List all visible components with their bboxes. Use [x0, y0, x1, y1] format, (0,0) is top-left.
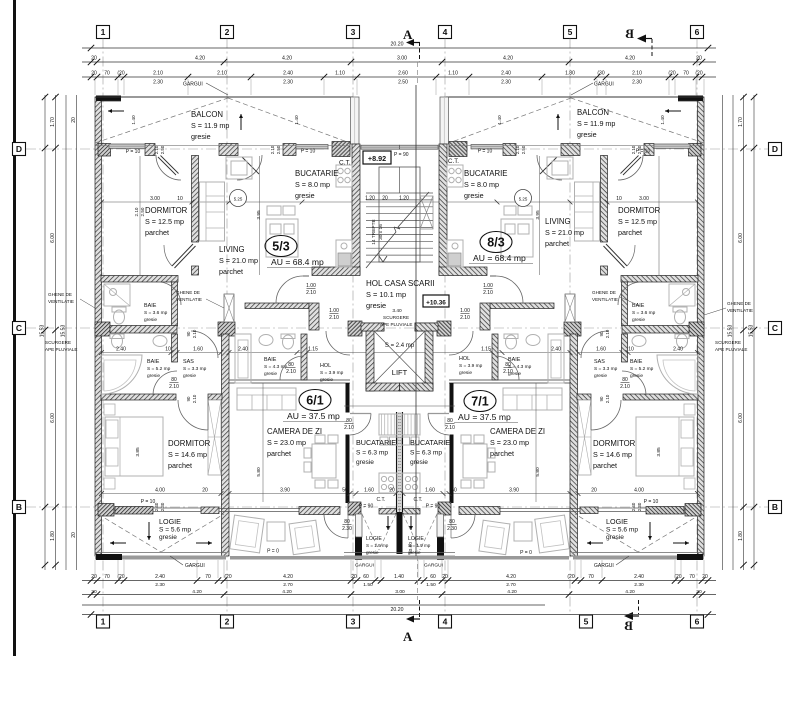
svg-text:gresie: gresie [464, 191, 484, 200]
svg-text:50: 50 [342, 488, 348, 494]
svg-text:20: 20 [91, 71, 97, 77]
svg-text:S = 5.6 mp: S = 5.6 mp [606, 527, 638, 534]
svg-text:BAIE: BAIE [264, 357, 277, 363]
svg-text:50: 50 [451, 488, 457, 494]
svg-text:3.85: 3.85 [135, 447, 141, 457]
svg-text:70: 70 [689, 574, 695, 580]
svg-text:SCURGERE: SCURGERE [383, 315, 409, 320]
svg-text:SCURGERE: SCURGERE [45, 340, 71, 345]
svg-text:7/1: 7/1 [471, 395, 488, 409]
svg-text:5.25: 5.25 [519, 197, 528, 202]
svg-text:2.40: 2.40 [155, 574, 165, 580]
svg-text:LOGIE: LOGIE [159, 517, 181, 526]
svg-text:5.25: 5.25 [234, 197, 243, 202]
svg-text:1.00: 1.00 [483, 283, 493, 289]
svg-text:BALCON: BALCON [577, 108, 609, 117]
svg-text:2: 2 [225, 27, 230, 37]
svg-text:30 x 16: 30 x 16 [378, 224, 384, 240]
svg-text:HOL CASA SCARII: HOL CASA SCARII [366, 279, 435, 288]
svg-text:P = 90: P = 90 [359, 504, 374, 510]
svg-text:15.53: 15.53 [749, 325, 755, 338]
svg-text:2.40: 2.40 [634, 574, 644, 580]
svg-text:1.10: 1.10 [448, 71, 458, 77]
svg-text:SAS: SAS [594, 359, 605, 365]
svg-text:(20: (20 [668, 71, 675, 77]
svg-text:P = 10: P = 10 [301, 149, 316, 155]
svg-text:2.10: 2.10 [153, 71, 163, 77]
svg-text:A: A [403, 629, 413, 644]
svg-text:2.10: 2.10 [620, 384, 630, 390]
svg-text:S = 14.6 mp: S = 14.6 mp [168, 450, 207, 459]
svg-text:3.90: 3.90 [280, 488, 290, 494]
svg-text:1.15: 1.15 [308, 347, 318, 353]
svg-text:5: 5 [568, 27, 573, 37]
svg-text:2.10: 2.10 [169, 384, 179, 390]
svg-text:S = 8.0 mp: S = 8.0 mp [464, 180, 499, 189]
svg-text:2.30: 2.30 [153, 80, 163, 86]
svg-text:S = 5.2 mp: S = 5.2 mp [147, 366, 171, 372]
svg-text:20: 20 [591, 488, 597, 494]
svg-text:P = 10: P = 10 [478, 149, 493, 155]
svg-text:BAIE: BAIE [630, 359, 643, 365]
svg-text:4.20: 4.20 [282, 589, 292, 595]
svg-text:2.40: 2.40 [673, 347, 683, 353]
svg-text:VENTILATIE: VENTILATIE [592, 297, 618, 302]
svg-text:GARGUI: GARGUI [185, 563, 205, 569]
svg-text:gresie: gresie [630, 373, 643, 379]
svg-text:S = 5.2 mp: S = 5.2 mp [630, 366, 654, 372]
svg-text:80: 80 [346, 418, 352, 424]
svg-text:(20: (20 [567, 574, 574, 580]
svg-text:20: 20 [351, 574, 357, 580]
svg-text:20: 20 [702, 574, 708, 580]
svg-text:2.40: 2.40 [631, 502, 636, 511]
svg-text:15.53: 15.53 [61, 325, 67, 338]
svg-text:S = 21.0 mp: S = 21.0 mp [219, 256, 258, 265]
svg-text:parchet: parchet [593, 461, 617, 470]
svg-text:S = 3.9 mp: S = 3.9 mp [320, 370, 344, 376]
svg-text:(20: (20 [117, 574, 124, 580]
svg-text:2.10: 2.10 [445, 425, 455, 431]
svg-text:gresie: gresie [459, 370, 472, 376]
svg-text:10: 10 [616, 196, 622, 202]
svg-text:(20: (20 [224, 574, 231, 580]
svg-text:6.00: 6.00 [50, 233, 56, 243]
svg-text:AU = 68.4 mp: AU = 68.4 mp [473, 253, 526, 263]
svg-text:1.20: 1.20 [365, 196, 375, 202]
svg-text:15.53: 15.53 [728, 325, 734, 338]
svg-text:20: 20 [696, 56, 702, 62]
svg-text:P = 0: P = 0 [520, 550, 532, 556]
svg-text:BUCATARIE: BUCATARIE [356, 438, 396, 447]
svg-text:gresie: gresie [356, 459, 374, 466]
svg-text:(20: (20 [695, 71, 702, 77]
svg-text:70: 70 [104, 574, 110, 580]
svg-text:GHENE DE: GHENE DE [727, 301, 751, 306]
svg-text:B: B [624, 618, 633, 633]
svg-text:APE PLUVIALE: APE PLUVIALE [715, 347, 747, 352]
svg-text:4.00: 4.00 [155, 488, 165, 494]
svg-text:VENTILATIE: VENTILATIE [48, 299, 74, 304]
svg-text:BUCATARIE: BUCATARIE [295, 169, 338, 178]
svg-text:2.50: 2.50 [521, 145, 526, 154]
svg-text:1.20: 1.20 [399, 196, 409, 202]
svg-text:3.90: 3.90 [509, 488, 519, 494]
svg-text:S = 3.3 mp: S = 3.3 mp [594, 366, 618, 372]
svg-text:4.20: 4.20 [625, 56, 635, 62]
svg-text:S = 11.9 mp: S = 11.9 mp [191, 121, 229, 130]
svg-text:2.10: 2.10 [503, 369, 513, 375]
svg-text:80: 80 [622, 377, 628, 383]
svg-text:2.70: 2.70 [506, 582, 516, 588]
svg-text:LOGIE: LOGIE [366, 536, 382, 542]
svg-text:70: 70 [588, 574, 594, 580]
svg-text:parchet: parchet [490, 449, 514, 458]
svg-text:14 TREPTE: 14 TREPTE [371, 219, 377, 245]
svg-text:1.00: 1.00 [306, 283, 316, 289]
svg-text:2.10: 2.10 [605, 329, 610, 338]
svg-text:P = 10: P = 10 [126, 149, 141, 155]
svg-text:4.20: 4.20 [192, 589, 202, 595]
svg-text:GHENE DE: GHENE DE [592, 290, 616, 295]
svg-text:2.40: 2.40 [501, 71, 511, 77]
svg-text:P = 0: P = 0 [267, 549, 279, 555]
svg-text:10: 10 [165, 347, 171, 353]
svg-text:6/1: 6/1 [306, 394, 323, 408]
svg-text:70: 70 [683, 71, 689, 77]
svg-text:DORMITOR: DORMITOR [618, 206, 661, 215]
svg-text:20: 20 [442, 574, 448, 580]
svg-text:SCURGERE: SCURGERE [715, 340, 741, 345]
svg-text:S = 12.5 mp: S = 12.5 mp [618, 217, 657, 226]
svg-text:gresie: gresie [264, 371, 277, 377]
svg-text:2: 2 [225, 617, 230, 627]
svg-text:A: A [403, 27, 413, 42]
svg-text:CAMERA DE ZI: CAMERA DE ZI [267, 427, 322, 436]
svg-text:BAIE: BAIE [144, 303, 157, 309]
svg-text:6.00: 6.00 [50, 413, 56, 423]
svg-text:4.00: 4.00 [634, 488, 644, 494]
svg-text:20: 20 [71, 117, 77, 123]
svg-text:80: 80 [505, 362, 511, 368]
svg-text:2.10: 2.10 [344, 425, 354, 431]
svg-text:4: 4 [443, 27, 448, 37]
svg-text:2.10: 2.10 [329, 315, 339, 321]
svg-text:2.40: 2.40 [154, 502, 159, 511]
svg-text:HOL: HOL [459, 356, 470, 362]
svg-text:1.40: 1.40 [394, 574, 404, 580]
svg-text:2.40: 2.40 [116, 347, 126, 353]
svg-text:5.80: 5.80 [535, 467, 541, 477]
svg-text:2.50: 2.50 [398, 80, 408, 86]
svg-text:1.70: 1.70 [50, 117, 56, 127]
svg-text:80: 80 [171, 377, 177, 383]
svg-text:3.95: 3.95 [256, 210, 262, 220]
svg-text:B: B [772, 502, 778, 512]
svg-text:+10.36: +10.36 [426, 300, 446, 307]
svg-text:20: 20 [696, 589, 702, 595]
svg-text:P = 90: P = 90 [426, 504, 441, 510]
svg-text:1.50: 1.50 [363, 582, 373, 588]
svg-text:S = 3.6 mp: S = 3.6 mp [144, 310, 168, 316]
svg-text:VENTILATIE: VENTILATIE [176, 297, 202, 302]
svg-text:3.95: 3.95 [535, 210, 541, 220]
svg-text:4.20: 4.20 [283, 574, 293, 580]
svg-text:P = 10: P = 10 [644, 499, 659, 505]
svg-text:2.10: 2.10 [270, 145, 275, 154]
svg-text:2.10: 2.10 [631, 145, 636, 154]
svg-text:GARGUI: GARGUI [355, 563, 374, 569]
svg-text:S = 4.3 mp: S = 4.3 mp [264, 364, 288, 370]
svg-text:3.40: 3.40 [392, 308, 402, 314]
svg-text:20.20: 20.20 [391, 42, 404, 48]
svg-text:2.10: 2.10 [192, 329, 197, 338]
svg-text:GHENE DE: GHENE DE [176, 290, 200, 295]
svg-text:parchet: parchet [545, 239, 569, 248]
svg-text:1.10: 1.10 [335, 71, 345, 77]
svg-text:2.30: 2.30 [637, 502, 642, 511]
svg-text:gresie: gresie [366, 550, 379, 555]
svg-text:20.20: 20.20 [391, 607, 404, 613]
svg-text:70: 70 [104, 71, 110, 77]
svg-text:AU = 37.5 mp: AU = 37.5 mp [287, 411, 340, 421]
svg-text:(20: (20 [117, 71, 124, 77]
svg-text:2.10: 2.10 [154, 145, 159, 154]
svg-text:80: 80 [447, 418, 453, 424]
svg-text:S = 10.1 mp: S = 10.1 mp [366, 290, 406, 299]
svg-text:1.80: 1.80 [50, 531, 56, 541]
svg-text:C.T.: C.T. [448, 158, 459, 165]
svg-text:90: 90 [186, 396, 191, 401]
svg-text:1.00: 1.00 [460, 308, 470, 314]
svg-text:2.40: 2.40 [551, 347, 561, 353]
svg-text:GHENE DE: GHENE DE [48, 292, 72, 297]
svg-text:gresie: gresie [191, 132, 211, 141]
svg-text:parchet: parchet [168, 461, 192, 470]
svg-text:20: 20 [389, 488, 395, 494]
svg-text:2.10: 2.10 [217, 71, 227, 77]
svg-text:1.80: 1.80 [738, 531, 744, 541]
svg-text:80: 80 [449, 519, 455, 525]
svg-text:gresie: gresie [594, 373, 607, 379]
svg-text:20: 20 [382, 196, 388, 202]
svg-text:CAMERA DE ZI: CAMERA DE ZI [490, 427, 545, 436]
svg-text:2.40: 2.40 [238, 347, 248, 353]
svg-text:1.60: 1.60 [596, 347, 606, 353]
svg-text:S = 23.0 mp: S = 23.0 mp [267, 438, 306, 447]
svg-text:S = 6.3 mp: S = 6.3 mp [356, 450, 388, 457]
svg-text:S = 23.0 mp: S = 23.0 mp [490, 438, 529, 447]
svg-text:C: C [772, 323, 778, 333]
svg-text:2.10: 2.10 [483, 290, 493, 296]
svg-text:2.10: 2.10 [286, 369, 296, 375]
svg-text:D: D [16, 144, 22, 154]
svg-text:gresie: gresie [320, 377, 333, 383]
svg-text:3.85: 3.85 [656, 447, 662, 457]
svg-text:2.10: 2.10 [460, 315, 470, 321]
svg-text:20: 20 [71, 532, 77, 538]
svg-text:DORMITOR: DORMITOR [168, 439, 211, 448]
svg-text:2.30: 2.30 [283, 80, 293, 86]
svg-text:parchet: parchet [145, 228, 169, 237]
svg-text:4.20: 4.20 [282, 56, 292, 62]
svg-text:gresie: gresie [144, 317, 157, 323]
svg-text:gresie: gresie [147, 373, 160, 379]
svg-text:4.20: 4.20 [507, 589, 517, 595]
svg-text:1.50: 1.50 [426, 582, 436, 588]
svg-text:gresie: gresie [632, 317, 645, 323]
svg-text:SAS: SAS [183, 359, 194, 365]
svg-text:3.00: 3.00 [395, 589, 405, 595]
svg-text:3: 3 [351, 27, 356, 37]
svg-text:3.00: 3.00 [150, 196, 160, 202]
svg-text:gresie: gresie [295, 191, 315, 200]
svg-text:S = 8.0 mp: S = 8.0 mp [295, 180, 330, 189]
svg-text:LIVING: LIVING [545, 217, 571, 226]
svg-text:15.53: 15.53 [40, 325, 46, 338]
svg-text:2.40: 2.40 [283, 71, 293, 77]
svg-text:S = 3.9 mp: S = 3.9 mp [459, 363, 483, 369]
svg-text:20: 20 [91, 574, 97, 580]
svg-text:C: C [16, 323, 22, 333]
svg-text:4: 4 [443, 617, 448, 627]
svg-text:5: 5 [584, 617, 589, 627]
svg-text:2.30: 2.30 [632, 80, 642, 86]
svg-text:BUCATARIE: BUCATARIE [464, 169, 507, 178]
svg-text:S = 12.5 mp: S = 12.5 mp [145, 217, 184, 226]
svg-text:2.10: 2.10 [605, 394, 610, 403]
svg-text:10: 10 [628, 347, 634, 353]
svg-text:+8.92: +8.92 [368, 154, 386, 163]
svg-text:4.20: 4.20 [503, 56, 513, 62]
svg-text:8/3: 8/3 [487, 236, 504, 250]
svg-text:90: 90 [599, 396, 604, 401]
svg-text:VENTILATIE: VENTILATIE [727, 308, 753, 313]
svg-text:LOGIE: LOGIE [408, 536, 424, 542]
svg-text:1.40: 1.40 [131, 115, 137, 125]
svg-text:parchet: parchet [219, 267, 243, 276]
svg-text:70: 70 [205, 574, 211, 580]
svg-text:C.T.: C.T. [414, 497, 423, 503]
svg-text:2.70: 2.70 [283, 582, 293, 588]
svg-text:4.20: 4.20 [195, 56, 205, 62]
svg-text:60: 60 [363, 574, 369, 580]
svg-text:60: 60 [430, 574, 436, 580]
svg-text:APE PLUVIALE: APE PLUVIALE [380, 322, 412, 327]
svg-text:LIVING: LIVING [219, 245, 245, 254]
svg-text:2.10: 2.10 [192, 394, 197, 403]
svg-text:GARGUI: GARGUI [594, 563, 614, 569]
svg-text:BALCON: BALCON [191, 110, 223, 119]
svg-text:2.30: 2.30 [155, 582, 165, 588]
svg-text:S = 14.6 mp: S = 14.6 mp [593, 450, 632, 459]
svg-text:2.30: 2.30 [342, 526, 352, 532]
svg-text:(20: (20 [674, 574, 681, 580]
svg-text:2.50: 2.50 [637, 145, 642, 154]
svg-text:2.30: 2.30 [160, 502, 165, 511]
svg-text:gresie: gresie [577, 130, 597, 139]
svg-text:1.40: 1.40 [660, 115, 666, 125]
svg-text:2.30: 2.30 [501, 80, 511, 86]
svg-text:1: 1 [101, 27, 106, 37]
svg-text:D: D [772, 144, 778, 154]
svg-text:1.00: 1.00 [329, 308, 339, 314]
svg-text:3.00: 3.00 [639, 196, 649, 202]
svg-text:(30: (30 [597, 71, 604, 77]
svg-text:80: 80 [288, 362, 294, 368]
svg-text:S = 21.0 mp: S = 21.0 mp [545, 228, 584, 237]
svg-text:1.60: 1.60 [364, 488, 374, 494]
svg-text:HOL: HOL [320, 363, 331, 369]
svg-text:C.T.: C.T. [339, 160, 351, 167]
svg-text:2.10: 2.10 [134, 207, 139, 216]
svg-text:BAIE: BAIE [147, 359, 160, 365]
svg-text:6.00: 6.00 [738, 233, 744, 243]
svg-text:GARGUI: GARGUI [183, 82, 203, 88]
svg-text:2.50: 2.50 [276, 145, 281, 154]
svg-text:BAIE: BAIE [632, 303, 645, 309]
svg-text:DORMITOR: DORMITOR [593, 439, 636, 448]
svg-text:gresie: gresie [183, 373, 196, 379]
svg-text:90: 90 [186, 331, 191, 336]
svg-text:90: 90 [599, 331, 604, 336]
svg-text:1.15: 1.15 [481, 347, 491, 353]
svg-text:S = 11.9 mp: S = 11.9 mp [577, 119, 615, 128]
svg-text:S = 3.3 mp: S = 3.3 mp [183, 366, 207, 372]
svg-text:20: 20 [202, 488, 208, 494]
svg-text:B: B [625, 26, 634, 41]
svg-text:6.00: 6.00 [738, 413, 744, 423]
svg-text:2.30: 2.30 [634, 582, 644, 588]
svg-text:APE PLUVIALE: APE PLUVIALE [45, 347, 77, 352]
svg-text:S = 6.3 mp: S = 6.3 mp [410, 450, 442, 457]
svg-text:1.40: 1.40 [294, 115, 300, 125]
svg-text:GARGUI: GARGUI [424, 563, 443, 569]
svg-text:S = 5.6 mp: S = 5.6 mp [159, 527, 191, 534]
svg-text:10.60: 10.60 [408, 542, 414, 554]
svg-text:80: 80 [344, 519, 350, 525]
svg-text:5/3: 5/3 [272, 240, 289, 254]
svg-text:AU = 68.4 mp: AU = 68.4 mp [271, 257, 324, 267]
svg-text:1.70: 1.70 [738, 117, 744, 127]
svg-text:4.20: 4.20 [625, 589, 635, 595]
svg-text:5.80: 5.80 [256, 467, 262, 477]
svg-text:S = 3.6 mp: S = 3.6 mp [632, 310, 656, 316]
svg-text:1.60: 1.60 [193, 347, 203, 353]
svg-text:parchet: parchet [267, 449, 291, 458]
svg-text:gresie: gresie [606, 534, 624, 541]
svg-text:3.00: 3.00 [397, 56, 407, 62]
svg-text:2.50: 2.50 [160, 145, 165, 154]
svg-text:LOGIE: LOGIE [606, 517, 628, 526]
svg-text:10: 10 [177, 196, 183, 202]
svg-text:20: 20 [91, 56, 97, 62]
svg-text:DORMITOR: DORMITOR [145, 206, 188, 215]
svg-text:BUCATARIE: BUCATARIE [410, 438, 450, 447]
svg-text:4.20: 4.20 [506, 574, 516, 580]
svg-text:1.80: 1.80 [565, 71, 575, 77]
svg-text:2.60: 2.60 [398, 71, 408, 77]
svg-text:1.60: 1.60 [425, 488, 435, 494]
svg-text:6: 6 [695, 617, 700, 627]
svg-text:gresie: gresie [410, 459, 428, 466]
svg-text:P = 90: P = 90 [394, 152, 409, 158]
svg-text:B: B [16, 502, 22, 512]
svg-text:S = 2.4 mp: S = 2.4 mp [385, 343, 415, 349]
svg-text:LIFT: LIFT [392, 368, 408, 377]
svg-text:gresie: gresie [366, 301, 386, 310]
svg-text:2.50: 2.50 [140, 207, 145, 216]
